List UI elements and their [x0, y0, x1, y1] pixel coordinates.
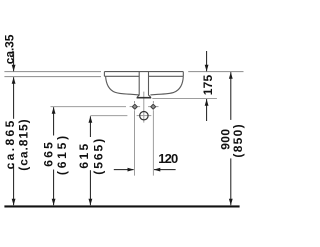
svg-text:ca.35: ca.35 [3, 34, 17, 64]
svg-text:120: 120 [158, 151, 178, 166]
svg-text:175: 175 [201, 74, 215, 95]
svg-text:(615): (615) [55, 133, 69, 175]
svg-text:(565): (565) [91, 137, 105, 175]
svg-text:(ca.815): (ca.815) [17, 118, 31, 170]
svg-text:665: 665 [42, 140, 56, 167]
svg-text:(850): (850) [231, 123, 245, 158]
svg-text:ca.865: ca.865 [3, 118, 17, 169]
svg-text:615: 615 [77, 141, 91, 168]
